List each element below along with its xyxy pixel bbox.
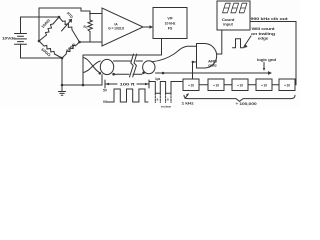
op-amp U1 instrumentation amplifier IA [102, 8, 143, 46]
wire cable pair lower [114, 73, 129, 75]
resistor RG (gain set) [88, 14, 92, 43]
resistor RTD (bridge top-right arm, variable) [59, 17, 80, 42]
wire divider output to AND gate lower input [193, 62, 197, 79]
wire battery+ up [20, 17, 22, 34]
wire 990kHz clock to divider chain [250, 22, 296, 85]
node bridge bottom [61, 57, 64, 60]
cable loop circle [100, 59, 113, 74]
wire bridge right node to IA bottom input [80, 41, 103, 43]
arrow 1 kHz pointer [185, 94, 188, 99]
counter U4 display box [217, 1, 250, 30]
svg-text:÷ 10: ÷ 10 [188, 83, 194, 87]
svg-text:10Vdc: 10Vdc [2, 37, 15, 41]
svg-text:÷ 10: ÷ 10 [284, 83, 290, 87]
wire cable left end down to ground rail [82, 55, 84, 85]
svg-text:on trailing: on trailing [251, 32, 275, 36]
wire cable return (logic gnd run) [156, 72, 269, 74]
twisted pair left twist [83, 58, 100, 73]
svg-text:÷ 10: ÷ 10 [213, 83, 219, 87]
node rail-cable junction [82, 84, 85, 87]
node cable right lower-left [142, 72, 145, 75]
dashed measure lines [155, 94, 171, 103]
display digits 888 [223, 3, 247, 13]
svg-text:logic gnd: logic gnd [257, 58, 277, 62]
resistor 100 ohm (bridge top-left arm) [39, 17, 59, 41]
svg-text:÷ 100,000: ÷ 100,000 [236, 102, 257, 106]
svg-text:RTD: RTD [66, 11, 74, 19]
wire cable signal to AND gate input (jog up) [152, 46, 197, 62]
waveform V/F output pulses 1us [150, 82, 183, 94]
AND gate U3 [197, 44, 217, 69]
svg-text:V/F: V/F [167, 17, 173, 21]
divider FF4 [256, 79, 272, 91]
svg-text:÷ 10: ÷ 10 [237, 83, 243, 87]
wire cable pair upper [114, 60, 132, 62]
wire circle bottom to rail [101, 75, 103, 86]
svg-text:100Ω: 100Ω [65, 42, 76, 53]
svg-text:100 ft: 100 ft [120, 82, 136, 87]
wire battery+ to bridge top node [21, 16, 60, 18]
node circle bottom [99, 72, 102, 75]
arrow will-count [244, 36, 251, 47]
node bridge right [78, 41, 81, 44]
arrow label to wire [263, 63, 265, 70]
cable right ellipse [143, 61, 155, 74]
svg-text:10 kHz: 10 kHz [165, 22, 176, 26]
svg-text:Count: Count [222, 18, 236, 22]
resistor 100 ohm (bridge bottom-right arm) [62, 42, 80, 58]
wire AND output to counter [217, 30, 222, 54]
node rail-RG junction [89, 13, 91, 15]
wire FF4-FF5 [272, 84, 279, 86]
dimension 100 ft [105, 80, 149, 88]
ground symbol [59, 85, 66, 95]
svg-text:8: 8 [157, 98, 159, 102]
wire battery- down [20, 44, 22, 58]
svg-text:Will count: Will count [252, 27, 276, 31]
node bridge left [38, 40, 41, 43]
waveform square wave 5V/0V [107, 89, 148, 102]
svg-text:8: 8 [167, 98, 169, 102]
svg-text:FS: FS [168, 27, 173, 31]
wire top rail (bridge left node to IA top input) [39, 8, 102, 41]
resistor 100 ohm (bridge bottom-left arm) [39, 41, 62, 58]
divider FF2 [208, 79, 224, 91]
svg-text:gate: gate [208, 64, 217, 68]
svg-text:RG: RG [84, 25, 88, 30]
battery B1 10Vdc [15, 34, 27, 45]
svg-text:G = 1032.8: G = 1032.8 [108, 27, 124, 31]
wire FF1-FF2 [199, 84, 208, 86]
divider FF3 [232, 79, 248, 91]
divider FF1 [183, 79, 199, 91]
wire V/F output down [161, 39, 163, 56]
wire FF2-FF3 [224, 84, 232, 86]
wire bridge bottom to ground [61, 58, 63, 85]
svg-text:990 kHz clk out: 990 kHz clk out [251, 17, 289, 21]
V/F converter U2 [153, 8, 187, 39]
wire cable top run [83, 54, 161, 56]
wire FF3-FF4 [248, 84, 256, 86]
svg-text:1 kHz: 1 kHz [182, 102, 195, 106]
divider FF5 [279, 79, 295, 91]
svg-text:input: input [223, 23, 234, 27]
svg-text:1μs: 1μs [155, 77, 161, 81]
node bridge top [58, 16, 61, 19]
svg-text:noise: noise [161, 105, 172, 109]
svg-text:edge: edge [258, 37, 269, 41]
node ground junction [61, 84, 64, 87]
wire battery- to bridge bottom node [21, 57, 63, 59]
wire IA output to V/F input [143, 26, 150, 28]
cable break marks [130, 54, 137, 77]
svg-text:÷ 10: ÷ 10 [261, 83, 267, 87]
svg-text:100Ω: 100Ω [41, 18, 52, 29]
brace divide-by-100000 [184, 95, 295, 101]
wire ground rail [62, 84, 102, 86]
node cable right lower-right [162, 72, 165, 75]
svg-text:5V: 5V [103, 89, 108, 93]
pulse glyph count pulse [233, 39, 244, 48]
